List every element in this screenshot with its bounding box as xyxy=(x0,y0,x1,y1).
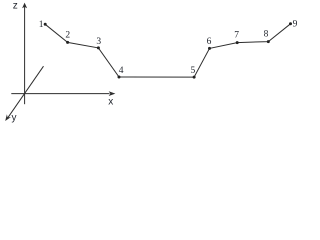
svg-text:9: 9 xyxy=(293,19,298,29)
y-axis line xyxy=(8,66,44,118)
svg-text:2: 2 xyxy=(65,31,70,41)
svg-text:8: 8 xyxy=(264,30,269,40)
svg-text:x: x xyxy=(108,96,113,107)
svg-text:7: 7 xyxy=(234,31,239,41)
point 4 marker xyxy=(118,76,121,79)
path polyline through points 1-9 xyxy=(45,24,290,77)
svg-text:1: 1 xyxy=(39,20,44,30)
x-axis arrowhead xyxy=(109,91,116,96)
svg-text:4: 4 xyxy=(119,66,124,76)
y-axis arrowhead xyxy=(5,114,11,121)
z-axis arrowhead xyxy=(22,3,27,9)
point 6 marker xyxy=(208,47,211,50)
point 2 marker xyxy=(66,41,69,44)
point 8 marker xyxy=(267,40,270,43)
svg-text:3: 3 xyxy=(96,37,101,47)
svg-text:5: 5 xyxy=(191,66,196,76)
z-axis line xyxy=(24,5,26,104)
svg-text:6: 6 xyxy=(207,37,212,47)
point 5 marker xyxy=(193,76,196,79)
svg-text:z: z xyxy=(13,0,18,11)
point 3 marker xyxy=(97,46,100,49)
svg-text:y: y xyxy=(12,112,17,123)
x-axis line xyxy=(11,93,109,95)
point 9 marker xyxy=(289,22,292,25)
point 7 marker xyxy=(236,41,239,44)
point 1 marker xyxy=(44,23,47,26)
